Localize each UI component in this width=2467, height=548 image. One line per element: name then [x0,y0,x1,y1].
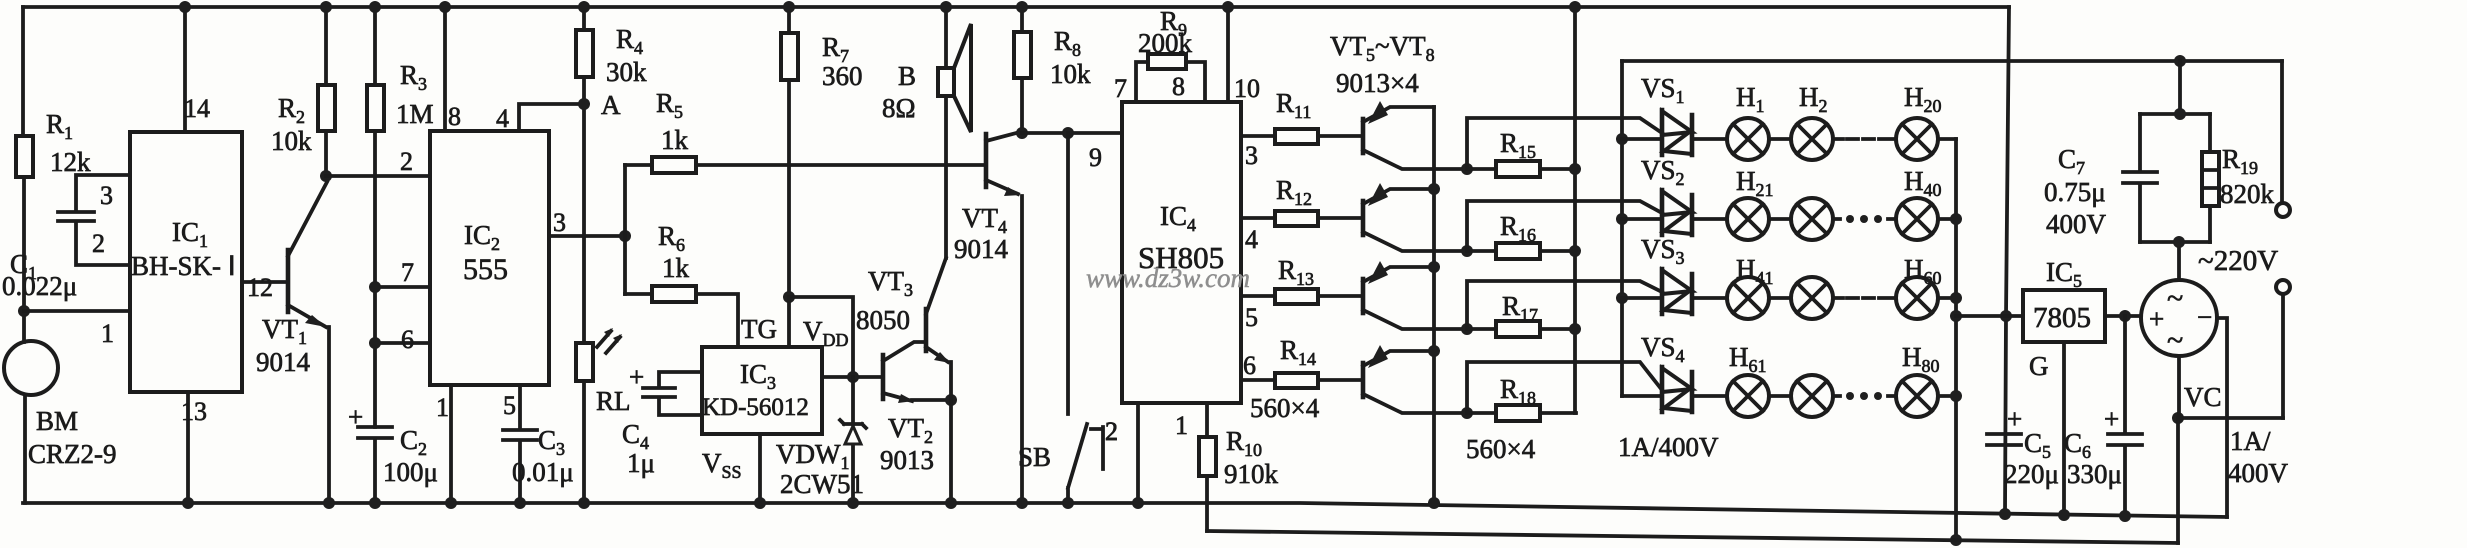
resistor R9 with pins 7 8 [1114,6,1205,103]
svg-text:30k: 30k [606,57,647,87]
node SB tap [1062,127,1074,139]
svg-text:1M: 1M [396,99,434,129]
wire IC2 pin 1 [436,385,457,509]
transistor Q1 VT1 9014 [256,182,335,509]
wire IC2 pin 8 [439,1,461,131]
lamp H2 [1769,82,1833,160]
zener VDW1 2CW51 [776,377,866,509]
svg-text:400V: 400V [2046,209,2107,239]
svg-text:R13: R13 [1278,255,1314,289]
svg-text:TG: TG [741,314,777,344]
svg-text:~: ~ [2167,324,2183,357]
svg-text:VT4: VT4 [962,203,1007,237]
svg-text:3: 3 [1245,141,1258,170]
svg-text:100μ: 100μ [383,457,438,487]
svg-text:1μ: 1μ [627,448,655,478]
transistor Q2 VT2 9013 [880,342,951,475]
svg-text:VT5~VT8: VT5~VT8 [1330,31,1435,65]
svg-text:R19: R19 [2222,144,2258,178]
svg-text:10k: 10k [1050,59,1091,89]
svg-text:820k: 820k [2220,179,2275,209]
svg-text:~: ~ [2167,282,2183,315]
svg-text:R14: R14 [1280,335,1316,369]
svg-text:5: 5 [1245,303,1258,332]
svg-text:1A/: 1A/ [2230,426,2271,456]
svg-text:1: 1 [436,393,449,422]
wire IC1 pin 14 [179,1,210,132]
svg-text:9013×4: 9013×4 [1336,68,1419,98]
wire IC3 output [822,371,881,383]
svg-text:KD-56012: KD-56012 [702,394,809,421]
svg-text:220μ: 220μ [2004,459,2059,489]
wire VS1 gate loop [1467,118,1662,169]
wire C7 R19 parallel frame [2140,61,2210,280]
resistor R10 on IC4 pin 1 [1175,403,1279,531]
svg-text:H20: H20 [1904,82,1942,116]
svg-text:+: + [629,362,644,392]
IC U2 555 box [430,131,549,385]
svg-text:0.022μ: 0.022μ [2,271,77,301]
svg-text:−: − [2197,302,2212,332]
svg-text:10: 10 [1234,74,1260,103]
svg-text:R17: R17 [1502,291,1538,325]
svg-text:2: 2 [400,147,413,176]
lamp H40 row2 [1769,166,1956,240]
transistor Q4 VT4 9014 [954,132,1028,509]
svg-text:+: + [348,402,363,432]
svg-text:13: 13 [181,397,207,426]
wire VS4 gate loop [1467,362,1662,413]
svg-text:8: 8 [1172,72,1185,101]
wire IC3 VSS to ground [754,434,766,509]
svg-text:1A/400V: 1A/400V [1618,432,1719,462]
resistor R5 [625,88,984,173]
lamp H1 [1727,82,1769,160]
svg-text:VT3: VT3 [868,266,913,300]
svg-text:RL: RL [596,386,631,416]
wire IC1 pin 1 [24,311,130,348]
svg-text:R16: R16 [1500,211,1536,245]
svg-text:7805: 7805 [2033,302,2091,334]
resistor R7 [781,1,863,297]
svg-text:R18: R18 [1500,374,1536,408]
node VT4 collector / R8 [1016,127,1122,139]
capacitor C4 electrolytic [622,362,702,478]
lamp H21 [1727,166,1774,240]
svg-text:360: 360 [822,61,863,91]
resistor R2 [271,1,335,176]
svg-text:VT2: VT2 [888,413,933,447]
wire IC2 pin 2 [326,147,430,176]
svg-text:400V: 400V [2228,458,2289,488]
svg-text:C6: C6 [2064,428,2091,462]
svg-text:VT1: VT1 [262,314,307,348]
wire top supply rail [23,5,2009,9]
svg-text:VDD: VDD [803,316,849,350]
svg-text:8Ω: 8Ω [882,93,916,123]
svg-text:6: 6 [1243,351,1256,380]
triac VS2 [1622,155,1727,235]
svg-text:+: + [2104,404,2119,434]
wire bottom ground rail [23,503,2227,517]
IC U4 SH805 box [1122,102,1241,403]
wire R bus vertical [1569,1,1581,413]
wire VS2 gate loop [1467,201,1662,251]
svg-text:C2: C2 [400,425,427,459]
transistor Q6 VT6 [1363,183,1467,251]
node VDD junction [783,291,853,377]
svg-text:1: 1 [1175,411,1188,440]
svg-text:6: 6 [401,325,414,354]
wire IC4 pin 10 [1222,1,1260,103]
svg-text:9014: 9014 [954,234,1009,264]
switch SB [1018,133,1118,509]
transistor Q3 VT3 8050 [856,258,951,400]
resistor R16 [1461,211,1576,259]
svg-text:VS2: VS2 [1641,155,1685,189]
resistor R19 [2202,114,2275,242]
terminal ~220V upper [2198,61,2290,277]
svg-text:7: 7 [401,258,414,287]
svg-text:R1: R1 [46,109,73,143]
svg-text:1k: 1k [661,125,689,155]
svg-text:VS1: VS1 [1641,73,1685,107]
terminal ~220V lower [2276,280,2290,418]
wire IC4 pin 9 label [1089,143,1102,172]
resistor R4 [576,1,647,343]
svg-text:0.01μ: 0.01μ [512,457,574,487]
lamp H41 row3 [1727,254,1956,319]
svg-text:C3: C3 [538,425,565,459]
wire VC dc line [1207,531,2178,543]
IC U1 BH-SK-I box [130,132,242,392]
resistor R13 [1241,255,1361,332]
lamp H61 row4 [1727,342,1956,417]
svg-text:1k: 1k [662,253,690,283]
capacitor C3 on IC2 pin 5 [503,385,574,509]
svg-text:R10: R10 [1226,426,1262,460]
wire VS3 gate loop [1467,281,1662,329]
resistor R1 [16,109,91,177]
wire IC1 pin 12 to VT1 base [242,273,286,302]
svg-text:A: A [601,90,621,120]
node VT2/VT3 emitter join [945,394,957,509]
svg-text:CRZ2-9: CRZ2-9 [28,439,117,469]
svg-text:R2: R2 [278,93,305,127]
wire left edge / R1 branch top [23,7,24,342]
node R2 / VT1 collector / IC2 pin2 [320,170,332,182]
resistor R8 [1014,1,1091,133]
bridge rectifier VC [2141,280,2217,357]
svg-text:560×4: 560×4 [1250,393,1320,423]
wire IC4 pin 2 [1105,403,1144,509]
svg-text:7: 7 [1114,74,1127,103]
wire IC2 pin 6 [369,325,430,354]
capacitor C5 electrolytic [1987,404,2059,489]
svg-text:H40: H40 [1904,166,1942,200]
resistor R18 [1461,374,1576,464]
svg-text:R12: R12 [1276,175,1312,209]
resistor R15 [1461,128,1576,177]
wire IC2 pin 3 output [549,208,625,237]
svg-text:VC: VC [2184,382,2222,412]
watermark www.dz3w.com [1086,263,1250,293]
svg-text:9: 9 [1089,143,1102,172]
wire IC1 pin 13 [181,392,207,509]
node VC output [2172,356,2289,543]
wire triac anode bus [1616,61,1628,396]
svg-text:IC5: IC5 [2046,257,2082,291]
node A [578,90,621,120]
svg-text:555: 555 [463,253,508,286]
svg-text:IC3: IC3 [740,359,776,393]
resistor R11 [1241,88,1361,170]
svg-text:BH-SK- Ⅰ: BH-SK- Ⅰ [131,251,236,281]
svg-text:~220V: ~220V [2198,245,2278,277]
capacitor C1 [2,175,130,301]
resistor R12 [1241,175,1361,254]
svg-text:www.dz3w.com: www.dz3w.com [1086,263,1250,293]
svg-text:H21: H21 [1736,166,1774,200]
svg-text:SB: SB [1018,442,1051,472]
resistor R6 [625,221,738,347]
svg-text:B: B [898,61,916,91]
IC U5 7805 [2023,257,2105,342]
wire DC feed vertical from top rail [1999,7,2012,520]
svg-text:VS4: VS4 [1641,332,1685,366]
svg-text:4: 4 [1245,225,1258,254]
svg-text:VSS: VSS [702,448,742,482]
svg-text:2CW51: 2CW51 [780,469,864,499]
transistor Q7 VT7 [1363,261,1467,329]
svg-text:G: G [2029,351,2049,381]
svg-text:330μ: 330μ [2067,459,2122,489]
svg-text:+: + [2007,404,2022,434]
svg-text:9013: 9013 [880,445,934,475]
svg-text:VS3: VS3 [1641,234,1685,268]
svg-text:1: 1 [101,319,114,348]
svg-text:10k: 10k [271,126,312,156]
svg-text:12k: 12k [50,147,91,177]
svg-text:R3: R3 [400,60,427,94]
wire lamp return bus [1950,139,1962,546]
svg-text:R8: R8 [1054,26,1081,60]
triac VS1 [1622,73,1727,155]
svg-text:R5: R5 [656,88,683,122]
wire IC5 input link [1956,314,2023,318]
wire lamp box top rail [1622,55,2282,67]
speaker B 8ohm [882,1,971,258]
capacitor C6 electrolytic [2064,316,2142,522]
svg-text:0.75μ: 0.75μ [2044,177,2106,207]
svg-text:H80: H80 [1902,342,1940,376]
svg-text:H2: H2 [1799,82,1828,116]
IC U3 KD-56012 box [702,314,849,482]
node R5/R6 split [619,165,631,294]
svg-text:200k: 200k [1138,28,1193,58]
resistor R17 [1461,291,1576,337]
node pin1 junction [18,305,30,317]
svg-text:C5: C5 [2024,428,2051,462]
wire IC5 output link to bridge [2105,310,2141,322]
svg-text:4: 4 [496,104,509,133]
svg-text:910k: 910k [1224,459,1279,489]
transistor Q5 VT5 [1363,101,1467,169]
svg-text:H61: H61 [1729,342,1767,376]
label VT5~VT8 9013x4 [1330,31,1435,98]
svg-text:H60: H60 [1904,254,1942,288]
svg-text:IC2: IC2 [464,220,500,254]
svg-text:H1: H1 [1736,82,1765,116]
wire IC5 ground pin G [2029,342,2070,521]
svg-text:9014: 9014 [256,347,311,377]
svg-text:H41: H41 [1736,254,1774,288]
svg-text:2: 2 [92,229,105,258]
svg-text:C7: C7 [2058,144,2085,178]
svg-text:VDW1: VDW1 [776,439,849,473]
svg-text:8050: 8050 [856,305,910,335]
resistor R3 [367,1,434,427]
wire bridge minus to ground rail [2217,318,2227,517]
wire IC2 pin 4 to node A [496,104,584,133]
svg-text:8: 8 [448,102,461,131]
svg-text:IC4: IC4 [1160,201,1196,235]
resistor R14 [1241,335,1361,423]
lamp H20 [1833,82,1956,160]
triac VS3 [1622,234,1727,314]
wire IC2 pin 7 [369,258,430,293]
transistor Q8 VT8 [1363,345,1467,413]
svg-text:3: 3 [553,208,566,237]
photoresistor RL [576,328,631,509]
triac VS4 [1618,332,1727,462]
svg-text:IC1: IC1 [172,217,208,251]
capacitor C2 electrolytic [348,402,438,509]
svg-text:R11: R11 [1276,88,1311,122]
svg-text:5: 5 [503,391,516,420]
svg-text:3: 3 [100,181,113,210]
svg-text:12: 12 [247,273,273,302]
capacitor C7 [2044,114,2157,242]
microphone BM CRZ2-9 [4,341,117,503]
wire emitter common bus [1428,107,1440,509]
svg-text:560×4: 560×4 [1466,434,1536,464]
svg-text:+: + [2149,304,2164,334]
svg-text:2: 2 [1105,417,1118,446]
svg-text:14: 14 [184,94,210,123]
svg-text:BM: BM [36,406,78,436]
svg-text:R4: R4 [616,24,643,58]
svg-text:R6: R6 [658,221,685,255]
svg-text:R15: R15 [1500,128,1536,162]
